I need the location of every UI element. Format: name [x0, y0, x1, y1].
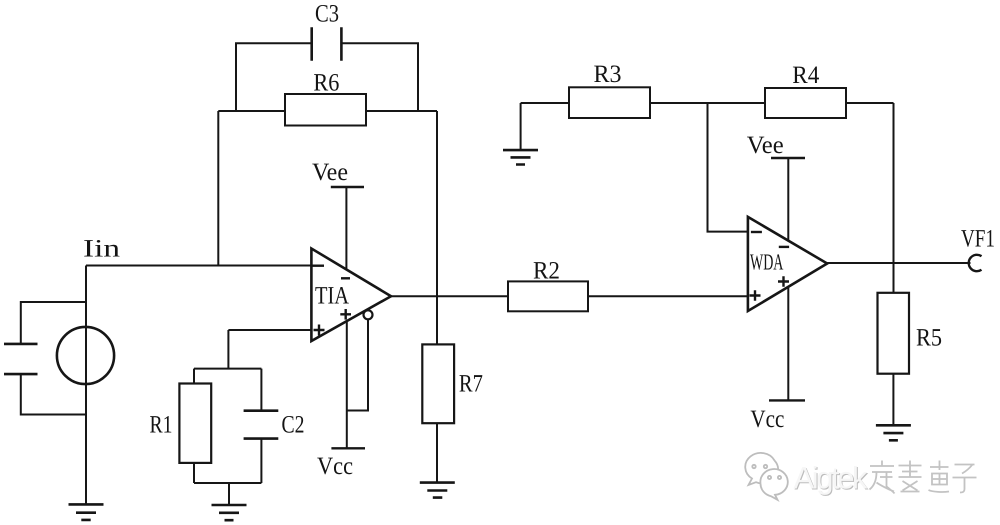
wire left branch top — [21, 302, 86, 344]
svg-text:R2: R2 — [533, 257, 560, 284]
op-amp TIA — [311, 249, 391, 342]
wire C2 bottom leg — [260, 439, 262, 483]
svg-text:Vcc: Vcc — [317, 453, 353, 480]
wire R3 R4 row — [521, 102, 894, 104]
wire C2 top leg — [260, 369, 262, 411]
ground R7 — [420, 483, 455, 498]
wire R1 leg — [193, 369, 195, 483]
wire WDA minus riser — [708, 103, 748, 232]
wire R3 ground riser — [520, 103, 522, 150]
wire C3 top left horizontal + riser — [236, 43, 312, 111]
wire left feedback riser — [217, 111, 219, 266]
wire TIA output — [391, 295, 748, 297]
svg-text:R6: R6 — [313, 70, 339, 97]
ground left main — [69, 504, 104, 520]
capacitor C3 — [312, 27, 342, 60]
minus mark WDA inner — [779, 246, 789, 248]
wire Vcc TIA — [346, 321, 348, 448]
wire Vee WDA — [787, 158, 789, 240]
minus mark WDA input — [751, 231, 762, 233]
svg-text:R1: R1 — [150, 412, 173, 439]
minus mark TIA input — [313, 265, 325, 267]
resistor R2 — [508, 281, 588, 311]
watermark text chinese — [870, 461, 977, 494]
wire C3 top right horizontal + riser — [341, 43, 418, 111]
wire WDA output — [827, 262, 970, 264]
wire node to Vcc — [347, 319, 368, 410]
resistor R7 — [422, 344, 454, 423]
Vcc bar WDA — [769, 399, 805, 401]
ground R1C2 — [212, 505, 247, 520]
plus mark WDA inner — [778, 276, 789, 287]
Vee bar TIA — [331, 186, 364, 188]
svg-text:R3: R3 — [594, 61, 622, 88]
wire R1C2 riser — [227, 330, 229, 369]
svg-text:VF1: VF1 — [961, 226, 995, 253]
ground R3 — [503, 150, 538, 164]
svg-text:Iin: Iin — [83, 236, 121, 263]
resistor R4 — [765, 88, 846, 118]
plus mark TIA input — [314, 325, 325, 336]
resistor R3 — [569, 87, 650, 118]
wire TIA plus input — [228, 329, 311, 331]
watermark text Aigtek — [794, 461, 870, 497]
resistor R6 — [285, 94, 366, 126]
svg-text:WDA: WDA — [750, 250, 784, 275]
wire Iin input — [86, 265, 311, 267]
plus mark WDA input — [750, 290, 761, 301]
svg-text:R5: R5 — [916, 324, 942, 351]
svg-text:Vee: Vee — [747, 132, 784, 159]
svg-text:TIA: TIA — [315, 283, 349, 310]
wire right vertical to R7 — [436, 111, 438, 344]
svg-text:Aigtek: Aigtek — [794, 461, 869, 496]
Vcc bar TIA — [331, 447, 365, 449]
svg-text:Vee: Vee — [312, 159, 348, 186]
wire Vee TIA — [345, 187, 347, 270]
wire R1C2 top rail — [194, 368, 261, 370]
wire Vcc WDA — [787, 288, 789, 401]
svg-text:R4: R4 — [792, 62, 819, 89]
wire R1C2 ground stem — [228, 483, 230, 505]
wire R1C2 bottom rail — [194, 482, 261, 484]
wire R4 to R5 vertical — [893, 103, 895, 293]
Vee bar WDA — [771, 157, 805, 159]
wire R5 to ground — [892, 374, 894, 426]
svg-text:C3: C3 — [315, 0, 339, 27]
svg-text:C2: C2 — [282, 412, 305, 439]
connector VF1 — [969, 255, 982, 271]
watermark wechat icon — [745, 453, 788, 500]
resistor R1 — [179, 384, 211, 463]
capacitor C2 — [244, 411, 279, 439]
capacitor input source — [4, 344, 38, 374]
wire R6 row — [218, 110, 437, 112]
minus mark TIA inner — [341, 277, 350, 279]
current source circle — [57, 327, 114, 384]
node circle TIA — [364, 310, 373, 319]
wire main left vertical — [85, 266, 87, 505]
svg-text:Vcc: Vcc — [750, 406, 784, 433]
plus mark TIA inner — [340, 309, 351, 320]
op-amp WDA — [748, 217, 827, 311]
wire left branch bottom — [21, 374, 86, 414]
ground R5 — [876, 425, 911, 440]
wire R7 to ground — [436, 423, 438, 482]
resistor R5 — [878, 293, 910, 374]
svg-text:R7: R7 — [459, 371, 483, 398]
